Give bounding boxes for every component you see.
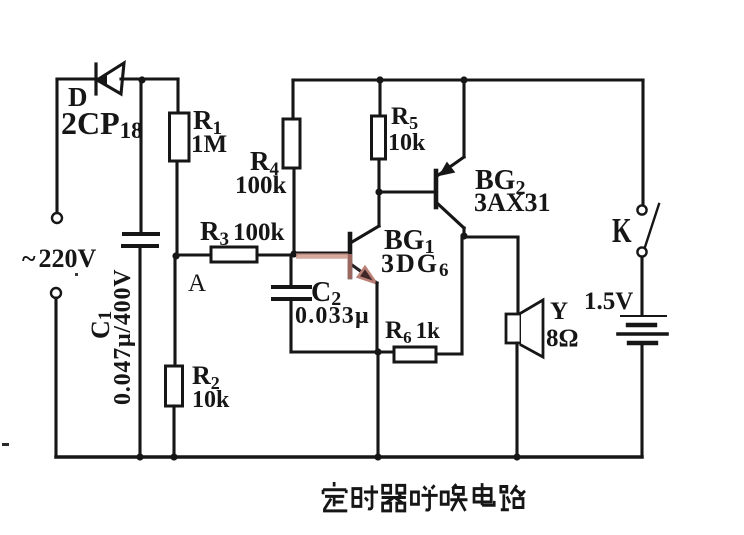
wire R1 bottom to node A [175, 161, 178, 256]
wire R4 top lead [291, 80, 294, 119]
caption 定时器呼唤电路 (drawn strokes) [323, 482, 525, 511]
node C junction dot [375, 188, 382, 195]
junction dot bottom rail emitter [374, 453, 381, 460]
switch K lower contact circle [637, 247, 646, 256]
transistor BG1 emitter diagonal [352, 265, 377, 283]
resistor R2 body [166, 366, 183, 406]
wire R5 bottom lead to node C [377, 159, 380, 192]
wire top-right rail [293, 78, 643, 81]
terminal lower AC input circle [51, 288, 61, 298]
diode D triangle [97, 63, 124, 94]
transistor BG2 emitter arrowhead [440, 163, 454, 175]
wire C1 top lead [139, 80, 142, 232]
speaker Y cone [521, 300, 543, 357]
wire R4 bottom lead [292, 168, 295, 254]
node junction dot at C1 top [138, 76, 145, 83]
capacitor C1 bottom plate [123, 244, 157, 248]
wire C2 top lead [289, 255, 292, 285]
char 定 [323, 482, 347, 511]
wire R6 up to node D [460, 236, 463, 354]
char 器 [382, 485, 406, 511]
scan speck dot near 220V [75, 273, 78, 276]
capacitor C2 bottom plate [273, 297, 310, 301]
wire C2 bottom lead [289, 301, 292, 352]
svg-text:100k: 100k [235, 172, 287, 199]
wire left AC leg down to upper terminal [55, 79, 58, 213]
wire node B to BG1 base [294, 251, 348, 254]
battery GB plate 3 long thick [618, 332, 667, 336]
wire diode to R1 top bend [121, 77, 178, 80]
wire R6 right lead [436, 352, 462, 355]
scan speck left margin dash [2, 443, 9, 446]
resistor R5 body [372, 116, 386, 159]
junction dot bottom rail C1 [136, 453, 143, 460]
battery GB plate 4 short thick [629, 341, 656, 345]
speaker Y magnet rectangle [506, 314, 521, 343]
capacitor C1 top plate [124, 232, 158, 236]
battery GB plate 1 long thin [621, 315, 666, 317]
transistor BG2 emitter diagonal [437, 157, 464, 176]
wire battery bottom to bottom rail [640, 345, 643, 457]
wire C1 bottom lead to bottom rail [138, 248, 141, 457]
diode D apex solid wedge [96, 73, 107, 88]
wire switch to battery [640, 257, 643, 315]
node junction dot rail R5 [376, 76, 383, 83]
svg-text:1M: 1M [191, 131, 227, 158]
wire bottom rail [56, 455, 642, 459]
svg-text:0.033μ: 0.033μ [295, 303, 370, 329]
node A junction dot [172, 252, 179, 259]
battery GB plate 2 short thick [628, 323, 655, 327]
svg-text:R3100k: R3100k [200, 216, 285, 250]
transistor BG2 base bar [434, 171, 439, 207]
wire speaker top lead [516, 237, 519, 314]
wire R3 right lead to node B [257, 253, 294, 256]
switch K lever [645, 204, 659, 247]
wire top-left rail from AC terminal to diode [57, 77, 97, 80]
wire BG2 collector to node D [462, 228, 465, 236]
resistor R3 body [211, 247, 257, 262]
wire top rail right bend down to switch [641, 80, 644, 205]
node junction dot rail BG2 emitter [460, 76, 467, 83]
wire BG1 collector diagonal [352, 226, 379, 242]
char 路 [501, 485, 525, 509]
node junction dot emitter/C2/R6 [374, 348, 381, 355]
char 唤 [441, 484, 467, 511]
wire BG1 collector vertical [377, 192, 380, 226]
junction dot bottom rail R2 [170, 453, 177, 460]
transistor BG1 emitter arrowhead [358, 267, 376, 283]
char 时 [353, 485, 378, 509]
wire node A down to R2 [173, 256, 176, 366]
svg-text:8Ω: 8Ω [546, 325, 579, 352]
wire C2 to R6 horizontal [291, 350, 394, 353]
wire BG2 collector diagonal [437, 203, 464, 228]
svg-text:Y: Y [550, 298, 568, 325]
wire node C to BG2 base [380, 190, 434, 193]
wire BG1 emitter down [375, 283, 378, 352]
svg-text:0.047μ/400V: 0.047μ/400V [110, 269, 136, 405]
wire BG2 emitter up to rail [462, 80, 465, 157]
svg-text:K: K [612, 211, 632, 250]
diode D cathode bar [94, 64, 97, 94]
char 呼 [411, 485, 437, 510]
wire R2 bottom lead to bottom rail [172, 406, 175, 457]
wire R3 left lead [176, 253, 211, 256]
junction dot bottom rail speaker [513, 453, 520, 460]
resistor R6 body [394, 347, 436, 362]
red scan smear on BG1 bar lower half [348, 254, 353, 279]
transistor BG1 base bar [348, 234, 353, 277]
node D junction dot [460, 232, 467, 239]
resistor R4 body [283, 119, 300, 168]
wire speaker bottom lead to bottom rail [515, 343, 518, 457]
svg-text:~220V: ~220V [22, 244, 97, 273]
resistor R1 body [170, 113, 190, 161]
switch K upper contact circle [637, 205, 646, 214]
node B junction dot [290, 250, 297, 257]
wire R1 top lead [176, 79, 179, 113]
svg-text:10k: 10k [192, 387, 230, 413]
wire node D to speaker [464, 235, 518, 238]
terminal upper AC input circle [52, 213, 62, 223]
wire R5 top lead [378, 80, 381, 116]
char 电 [474, 483, 494, 505]
svg-text:A: A [188, 270, 206, 297]
wire lower AC leg down to bottom rail [54, 298, 57, 457]
svg-text:10k: 10k [388, 130, 426, 156]
svg-text:3AX31: 3AX31 [474, 188, 551, 217]
svg-text:1.5V: 1.5V [584, 288, 633, 315]
capacitor C2 top plate [273, 285, 310, 289]
red scan smear near node B [296, 253, 348, 259]
wire emitter node to bottom rail [376, 352, 379, 457]
